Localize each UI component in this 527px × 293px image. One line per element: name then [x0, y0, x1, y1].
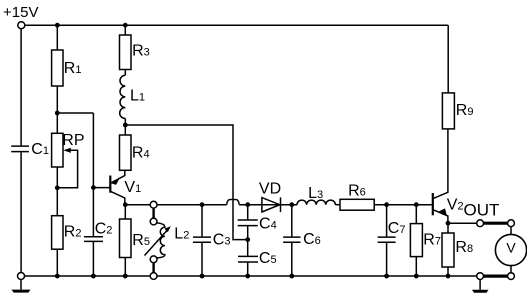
wire R8 top lead [447, 223, 449, 233]
svg-text:V: V [506, 240, 516, 256]
label L1 [130, 87, 145, 104]
connector L2 top circles [150, 201, 157, 225]
inductor L3 [297, 200, 335, 205]
wire mid rail left [125, 204, 226, 206]
label R8 [455, 239, 473, 256]
label R3 [132, 43, 150, 60]
label V1 [124, 179, 141, 196]
wire C7 top lead [386, 205, 388, 237]
wire top +15V rail [25, 24, 448, 26]
wire RP to R2 [56, 167, 58, 216]
wire voltmeter bottom lead [510, 266, 512, 273]
wire C7 bottom lead [386, 242, 388, 276]
wire R7 top lead [415, 205, 417, 224]
resistor R5 [120, 219, 132, 258]
resistor R7 [410, 224, 422, 257]
wire crossover hop [227, 200, 240, 205]
resistor R1 [52, 50, 63, 86]
wire R1 to RP [56, 86, 58, 133]
wire L3 to R6 [335, 204, 340, 206]
label OUT [464, 201, 500, 220]
svg-text:OUT: OUT [464, 201, 500, 220]
wire left vertical lower [20, 152, 22, 272]
capacitor C7 [378, 237, 396, 242]
label VD [259, 180, 281, 197]
terminal +15V [18, 22, 25, 29]
wire R1 top lead [56, 25, 58, 50]
label RP [62, 132, 84, 149]
label R7 [423, 231, 441, 248]
wire L1 to R4 [124, 118, 126, 135]
capacitor C4 [238, 220, 258, 226]
label V meter [506, 240, 516, 256]
wire OUT thick link top [484, 222, 508, 225]
label C5 [259, 250, 277, 267]
connector L2 bottom circles [150, 256, 157, 280]
label V2 [447, 197, 464, 214]
wire feedback rail from L1 node [125, 125, 247, 240]
resistor R6 [340, 199, 374, 210]
terminal OUT bottom pair [477, 273, 515, 280]
label R9 [456, 102, 474, 119]
terminal OUT top pair [477, 220, 515, 227]
terminal ground left [18, 273, 25, 280]
resistor R4 [120, 135, 132, 170]
wire OUT thick link bottom [484, 275, 508, 278]
capacitor C3 [193, 237, 211, 242]
wire R8 bottom lead [447, 267, 449, 276]
svg-text:RP: RP [62, 132, 84, 149]
wire bottom ground rail [24, 275, 476, 277]
label R4 [132, 145, 150, 162]
label C3 [213, 232, 231, 249]
node junction dots [55, 23, 451, 279]
wire C5 bottom lead [247, 262, 249, 276]
voltmeter PV [495, 234, 526, 265]
transistor V2 [433, 129, 448, 223]
label C6 [303, 231, 321, 248]
label C7 [388, 220, 406, 237]
svg-text:+15V: +15V [3, 4, 38, 21]
diode VD [262, 197, 281, 212]
wire V1 base lead [93, 187, 109, 189]
wire C3 top lead [201, 205, 203, 237]
wire R7 bottom lead [415, 257, 417, 276]
resistor R2 [52, 216, 63, 250]
capacitor C1 [11, 146, 29, 152]
label C2 [95, 221, 113, 238]
potentiometer RP [52, 133, 78, 188]
resistor R3 [120, 35, 132, 70]
transistor V1 [110, 170, 125, 204]
wire voltmeter top lead [510, 227, 512, 235]
inductor L1 [120, 75, 126, 118]
wire R9 top drop [447, 25, 449, 93]
label L3 [308, 185, 323, 202]
wire R5 top lead [124, 205, 126, 219]
ground left [12, 280, 31, 293]
wire left vertical upper [20, 29, 22, 146]
wire R2 bottom lead [56, 249, 58, 276]
label R1 [64, 60, 82, 77]
capacitor C5 [238, 256, 258, 262]
inductor L2 [145, 223, 171, 258]
ground right [472, 280, 489, 293]
capacitor C2 [84, 237, 103, 242]
wire branch vertical to V1 base node [92, 113, 94, 236]
wire C6 top lead [291, 205, 293, 237]
wire mid rail right to V2 base [374, 204, 432, 206]
label R2 [64, 223, 82, 240]
connector lower pair [152, 263, 154, 273]
wire C5 top lead [247, 240, 249, 256]
wire R3 to L1 [124, 70, 126, 76]
label R5 [132, 232, 150, 249]
svg-text:VD: VD [259, 180, 281, 197]
wire R5 bottom lead [124, 258, 126, 277]
wire C4 bottom lead [247, 226, 249, 240]
wire mid rail center [239, 204, 297, 206]
label L2 [174, 225, 189, 242]
label +15V [3, 4, 38, 21]
resistor R8 [442, 233, 454, 267]
wire V2 emitter node to OUT [448, 222, 477, 224]
capacitor C6 [283, 237, 300, 242]
wire C6 bottom lead [291, 242, 293, 276]
wire C4 top lead [247, 205, 249, 220]
resistor R9 [442, 93, 454, 129]
wire C2 bottom lead [92, 241, 94, 276]
wire R3 top lead [124, 25, 126, 35]
label R6 [348, 183, 366, 200]
connector upper pair [152, 208, 154, 218]
wire R1-R4 branch horizontal [57, 112, 93, 114]
label C4 [259, 215, 277, 232]
label C1 [31, 141, 49, 158]
wire C3 bottom lead [201, 242, 203, 276]
